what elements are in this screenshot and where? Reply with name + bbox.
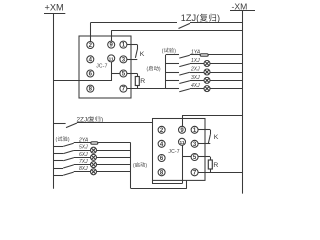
wire pin7-U2 to -XM <box>198 172 243 174</box>
signal lamp 1XJ <box>204 61 210 67</box>
collector bottom wire <box>131 188 187 190</box>
pin 6 of U1 <box>87 70 94 77</box>
wire R2 top stub <box>210 157 212 160</box>
svg-text:11: 11 <box>109 56 114 62</box>
signal lamp 8XJ <box>91 169 97 175</box>
svg-text:2XJ: 2XJ <box>190 66 200 72</box>
signal lamp 5XJ <box>91 147 97 153</box>
svg-text:1YA: 1YA <box>191 49 201 55</box>
switch blade 6XJ <box>63 158 73 161</box>
wire 2ZJ stub from +XM <box>54 123 66 125</box>
wire R1 top stub <box>137 74 139 77</box>
switch blade 1ZJ <box>179 23 191 28</box>
wire pin1-U2 right <box>198 129 211 131</box>
wire stub row 3XJ <box>166 80 179 82</box>
wire row 8XJ to collector <box>96 171 130 173</box>
svg-text:+XM: +XM <box>45 3 64 13</box>
svg-text:K: K <box>140 51 145 58</box>
relay U1 JC-7 case <box>79 36 131 98</box>
pin 4 of U2 <box>158 140 165 147</box>
wire row 3XJ mid <box>190 80 204 82</box>
pin 1 of U1 <box>120 41 127 48</box>
switch blade 3XJ <box>179 81 190 84</box>
pin 9 of U2 <box>179 126 186 133</box>
wire pin5-U1 right <box>127 73 138 75</box>
switch blade 8XJ <box>63 172 73 175</box>
relay U2 JC-7 case <box>153 119 206 181</box>
wire down to pin2-U2 <box>161 123 163 127</box>
resistor R1 <box>135 77 139 86</box>
svg-text:R: R <box>213 162 218 169</box>
wire row 8XJ mid <box>74 171 91 173</box>
pin 5 of U1 <box>120 70 127 77</box>
pin 7 of U2 <box>191 169 198 176</box>
wire pin5-U2 right <box>198 156 211 158</box>
signal lamp 7XJ <box>91 162 97 168</box>
wire pin9-U1 up <box>111 31 113 42</box>
signal lamp 2XJ <box>204 69 210 75</box>
wire row 6XJ mid <box>74 157 91 159</box>
wire row 1YA to -XM <box>208 54 243 56</box>
label 1ZJ hanzi 复 <box>200 14 208 22</box>
pin 3 of U2 <box>191 140 198 147</box>
svg-text:3XJ: 3XJ <box>191 75 200 81</box>
wire stub row 8XJ from +XM <box>54 175 63 177</box>
svg-text:2ZJ(: 2ZJ( <box>77 116 91 123</box>
wire R2 bottom stub <box>210 169 212 172</box>
label 1ZJ hanzi 归 <box>209 14 216 22</box>
svg-text:K: K <box>214 134 219 141</box>
wire row 3XJ to -XM <box>210 80 243 82</box>
contact K2 blade <box>208 135 210 143</box>
switch blade 2ZJ <box>66 123 77 128</box>
switch blade 5XJ <box>63 151 73 154</box>
svg-text:6XJ: 6XJ <box>79 152 88 158</box>
wire branch to pin5-U1 <box>111 73 120 75</box>
wire stub row 2XJ <box>166 72 179 74</box>
collector riser to U2 case <box>186 180 188 188</box>
pin 2 of U2 <box>158 126 165 133</box>
switch blade 2XJ <box>179 72 190 75</box>
pin 7 of U1 <box>120 85 127 92</box>
label 2ZJ hanzi 复 <box>89 116 95 122</box>
wire row 2XJ to -XM <box>210 72 243 74</box>
svg-text:1ZJ(: 1ZJ( <box>181 13 199 23</box>
wire row 2YA mid <box>74 142 91 144</box>
svg-text:JC-7: JC-7 <box>168 149 179 155</box>
wire stub row 1YA <box>166 54 179 56</box>
wire coil U2 bottom <box>152 183 182 185</box>
svg-text:R: R <box>140 78 145 85</box>
wire stub row 7XJ from +XM <box>54 168 63 170</box>
switch blade 7XJ <box>63 165 73 168</box>
wire row 4XJ mid <box>190 88 204 90</box>
bus +XM terminal tick <box>44 13 65 15</box>
wire row 5XJ to collector <box>96 150 130 152</box>
svg-text:): ) <box>217 13 220 23</box>
bus +XM vertical <box>53 14 55 189</box>
wire 1ZJ right segment <box>190 22 243 24</box>
switch blade 2YA <box>63 143 73 146</box>
signal lamp 4XJ <box>204 86 210 92</box>
bus -XM terminal tick <box>230 10 255 12</box>
wire row 2YA to collector <box>98 142 131 144</box>
svg-text:7XJ: 7XJ <box>79 159 88 165</box>
wire stub row 4XJ <box>166 88 179 90</box>
wire pin1-U1 right <box>127 44 138 46</box>
wire pin3-U1 right <box>127 59 138 61</box>
signal lamp 6XJ <box>91 154 97 160</box>
svg-text:-XM: -XM <box>232 1 248 11</box>
switch blade 1YA <box>179 55 190 58</box>
label 2ZJ hanzi 归 <box>95 116 100 122</box>
pin 9 of U1 <box>108 41 115 48</box>
svg-text:4XJ: 4XJ <box>191 83 200 89</box>
wire pin9-U1 to -XM <box>111 30 243 32</box>
test bus vertical top <box>165 55 167 89</box>
pin 1 of U2 <box>191 126 198 133</box>
wire 1ZJ left segment <box>90 22 177 24</box>
wire stub row 5XJ from +XM <box>54 153 63 155</box>
pin 8 of U2 <box>158 169 165 176</box>
pin 5 of U2 <box>191 154 198 161</box>
wire row 6XJ to collector <box>96 157 130 159</box>
signal lamp 3XJ <box>204 77 210 83</box>
wire coil U2 left riser <box>152 180 154 183</box>
wire stub row 6XJ from +XM <box>54 160 63 162</box>
wire pin3-U2 right <box>198 143 211 145</box>
svg-text:8XJ: 8XJ <box>79 166 88 172</box>
wire K2 vertical <box>210 130 212 135</box>
wire row 5XJ mid <box>74 150 91 152</box>
wire branch to pin5-U2 <box>182 156 191 158</box>
svg-text:5XJ: 5XJ <box>79 145 88 151</box>
wire row 7XJ to collector <box>96 164 130 166</box>
pin 11 of U2 <box>179 138 186 145</box>
collector vertical <box>130 143 132 189</box>
svg-text:1XJ: 1XJ <box>191 58 200 64</box>
wire row 7XJ mid <box>74 164 91 166</box>
wire row 1YA mid <box>190 54 200 56</box>
svg-text:2YA: 2YA <box>78 137 89 143</box>
wire R1 bottom stub <box>137 86 139 89</box>
pin 2 of U1 <box>87 42 94 49</box>
bus -XM vertical <box>242 11 244 194</box>
pin 6 of U2 <box>158 155 165 162</box>
resistor R2 <box>208 160 212 169</box>
wire pin2-U1 up <box>90 23 92 42</box>
wire 2ZJ to relay U2 <box>77 122 162 124</box>
electromagnet 2YA <box>91 142 98 144</box>
pin 8 of U1 <box>87 85 94 92</box>
wire row 1XJ to -XM <box>210 63 243 65</box>
pin 3 of U1 <box>120 56 127 63</box>
wire row 4XJ to -XM <box>210 88 243 90</box>
wire row 2XJ mid <box>190 72 204 74</box>
wire coil U1 to +XM <box>54 80 112 82</box>
contact K1 blade <box>135 50 137 58</box>
wire stub row 2YA from +XM <box>54 146 63 148</box>
wire pin11-U2 down <box>182 145 184 184</box>
pin 4 of U1 <box>87 56 94 63</box>
switch blade 4XJ <box>179 89 190 92</box>
wire pin9-U2 to -XM <box>182 115 243 117</box>
svg-text:): ) <box>101 116 103 123</box>
wire row 1XJ mid <box>190 63 204 65</box>
wire pin9-U2 up <box>182 115 184 126</box>
wire K1 vertical <box>137 45 139 50</box>
wire pin7-U1 to test bus <box>127 88 166 90</box>
wire stub row 1XJ <box>166 63 179 65</box>
svg-text:JC-7: JC-7 <box>96 64 107 70</box>
wire pin11-U1 down <box>111 62 113 81</box>
electromagnet 1YA <box>200 54 208 56</box>
switch blade 1XJ <box>179 64 190 67</box>
pin 11 of U1 <box>108 55 115 62</box>
